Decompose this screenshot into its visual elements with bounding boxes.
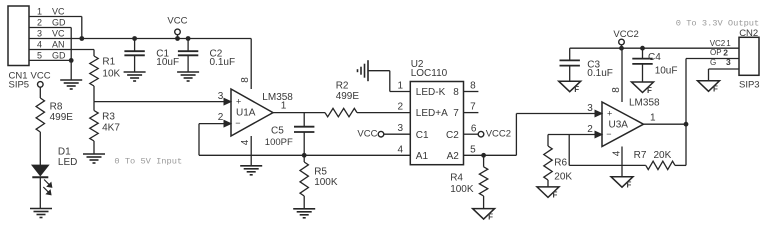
- svg-text:3: 3: [587, 103, 593, 114]
- svg-text:A1: A1: [416, 151, 429, 162]
- svg-text:20K: 20K: [654, 150, 672, 161]
- svg-text:U1A: U1A: [236, 108, 256, 119]
- svg-text:F: F: [647, 86, 652, 95]
- svg-text:3: 3: [218, 91, 224, 102]
- svg-text:7: 7: [470, 102, 476, 113]
- svg-text:OP: OP: [710, 48, 722, 57]
- svg-text:F: F: [553, 191, 558, 200]
- svg-text:LED+A: LED+A: [416, 108, 448, 119]
- svg-text:F: F: [713, 85, 718, 94]
- svg-text:100K: 100K: [450, 184, 474, 195]
- svg-text:LED: LED: [58, 157, 77, 168]
- svg-text:GD: GD: [52, 18, 66, 28]
- svg-text:F: F: [574, 85, 579, 94]
- svg-text:R3: R3: [102, 112, 115, 123]
- svg-text:VCC: VCC: [31, 71, 51, 82]
- svg-text:0 To 5V Input: 0 To 5V Input: [114, 157, 182, 167]
- svg-text:D1: D1: [58, 147, 71, 158]
- svg-text:499E: 499E: [336, 91, 360, 102]
- svg-text:8: 8: [611, 87, 622, 93]
- svg-text:7: 7: [453, 108, 459, 119]
- svg-text:2: 2: [37, 18, 42, 28]
- svg-text:G: G: [710, 58, 716, 67]
- svg-text:4K7: 4K7: [102, 123, 120, 134]
- svg-text:8: 8: [453, 87, 459, 98]
- svg-text:GD: GD: [52, 50, 66, 60]
- svg-text:3: 3: [37, 29, 42, 39]
- svg-text:C4: C4: [648, 52, 661, 63]
- svg-text:CN2: CN2: [739, 28, 758, 39]
- svg-text:10uF: 10uF: [655, 66, 678, 77]
- svg-text:SIP3: SIP3: [739, 79, 760, 90]
- svg-text:VCC: VCC: [357, 129, 377, 140]
- svg-text:R7: R7: [634, 150, 647, 161]
- svg-text:C1: C1: [416, 130, 429, 141]
- svg-text:VC: VC: [52, 7, 65, 17]
- svg-text:4: 4: [37, 40, 42, 50]
- svg-text:2: 2: [723, 47, 728, 57]
- svg-text:2: 2: [218, 112, 224, 123]
- svg-text:20K: 20K: [554, 171, 572, 182]
- svg-text:VCC: VCC: [167, 16, 187, 27]
- svg-text:R6: R6: [554, 158, 567, 169]
- svg-text:LOC110: LOC110: [411, 68, 448, 79]
- svg-text:4: 4: [240, 139, 251, 145]
- svg-text:R5: R5: [314, 167, 327, 178]
- svg-text:F: F: [627, 181, 632, 190]
- svg-text:R8: R8: [50, 101, 63, 112]
- svg-text:10K: 10K: [102, 68, 120, 79]
- svg-text:1: 1: [281, 101, 287, 112]
- svg-text:8: 8: [470, 81, 476, 92]
- svg-text:499E: 499E: [50, 112, 74, 123]
- svg-text:A2: A2: [447, 151, 460, 162]
- svg-text:VCC2: VCC2: [613, 29, 638, 40]
- svg-text:C2: C2: [446, 130, 459, 141]
- svg-text:C5: C5: [271, 125, 284, 136]
- svg-text:R4: R4: [450, 173, 463, 184]
- svg-text:100PF: 100PF: [265, 137, 293, 148]
- svg-text:LM358: LM358: [629, 97, 660, 108]
- svg-text:3: 3: [398, 123, 404, 134]
- svg-text:4: 4: [398, 144, 404, 155]
- svg-text:1: 1: [37, 7, 42, 17]
- svg-text:LED-K: LED-K: [416, 87, 446, 98]
- svg-text:100K: 100K: [314, 177, 338, 188]
- svg-text:R1: R1: [102, 56, 115, 67]
- svg-text:0.1uF: 0.1uF: [587, 68, 613, 79]
- svg-text:VCC2: VCC2: [486, 128, 511, 139]
- svg-text:+: +: [607, 109, 612, 119]
- svg-text:U3A: U3A: [609, 120, 629, 131]
- svg-text:8: 8: [240, 77, 251, 83]
- svg-text:−: −: [235, 118, 240, 128]
- svg-text:5: 5: [470, 144, 476, 155]
- svg-text:R2: R2: [336, 80, 349, 91]
- svg-text:AN: AN: [52, 40, 65, 50]
- svg-text:3: 3: [726, 57, 731, 67]
- svg-text:1: 1: [398, 81, 404, 92]
- svg-text:6: 6: [471, 123, 477, 134]
- svg-text:10uF: 10uF: [156, 57, 179, 68]
- svg-text:VC: VC: [52, 29, 65, 39]
- svg-text:−: −: [606, 129, 611, 139]
- svg-text:0.1uF: 0.1uF: [210, 57, 236, 68]
- svg-text:SIP5: SIP5: [9, 80, 30, 91]
- svg-text:2: 2: [398, 102, 404, 113]
- svg-text:1: 1: [650, 112, 656, 123]
- svg-text:2: 2: [587, 124, 593, 135]
- svg-text:5: 5: [37, 50, 42, 60]
- svg-text:4: 4: [612, 150, 623, 156]
- svg-text:F: F: [488, 212, 493, 221]
- svg-text:LM358: LM358: [262, 92, 293, 103]
- svg-text:+: +: [236, 97, 241, 107]
